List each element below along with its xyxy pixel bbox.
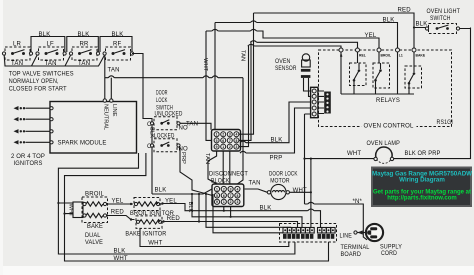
svg-text:YEL: YEL bbox=[365, 33, 377, 39]
wire BLK loop RR-RF bbox=[100, 37, 132, 53]
svg-text:SPARK MODULE: SPARK MODULE bbox=[58, 141, 107, 147]
wire TAN drop into block row3 bbox=[239, 46, 249, 147]
wire YEL broil ignitor return bbox=[163, 204, 321, 228]
wire stair 4 bbox=[206, 194, 291, 227]
svg-text:1: 1 bbox=[223, 200, 225, 204]
svg-text:3: 3 bbox=[229, 133, 231, 137]
svg-text:BAKE IGNITOR: BAKE IGNITOR bbox=[125, 231, 166, 237]
svg-text:7: 7 bbox=[230, 194, 232, 198]
svg-text:BLK: BLK bbox=[155, 188, 167, 194]
svg-text:BLK OR PRP: BLK OR PRP bbox=[405, 151, 441, 157]
svg-text:RED: RED bbox=[111, 210, 125, 216]
svg-text:TOP VALVE SWITCHES: TOP VALVE SWITCHES bbox=[9, 72, 74, 78]
wire B drop bbox=[340, 52, 342, 94]
connector plug white strip bbox=[311, 87, 318, 117]
svg-text:L1: L1 bbox=[399, 54, 403, 58]
svg-text:RED: RED bbox=[167, 216, 181, 222]
svg-text:NEUTRAL: NEUTRAL bbox=[102, 104, 108, 130]
oven light switch bbox=[425, 24, 459, 34]
svg-text:4: 4 bbox=[236, 187, 238, 191]
oven sensor symbol bbox=[301, 54, 311, 78]
wire PRP from block to oven control connector bbox=[240, 108, 311, 153]
svg-text:RF: RF bbox=[113, 41, 122, 47]
svg-text:2: 2 bbox=[223, 187, 225, 191]
terminal board dashed box bbox=[280, 224, 337, 243]
svg-text:DOOR LOCK: DOOR LOCK bbox=[269, 171, 298, 177]
svg-text:BLK: BLK bbox=[383, 17, 395, 23]
svg-text:SWITCH: SWITCH bbox=[430, 16, 451, 22]
svg-text:LF: LF bbox=[47, 41, 55, 47]
connector pin lines bbox=[318, 91, 324, 114]
svg-text:MOTOR: MOTOR bbox=[270, 178, 290, 184]
left white margin bbox=[0, 0, 3, 275]
svg-text:LR: LR bbox=[13, 41, 22, 47]
svg-text:DISCONNECT: DISCONNECT bbox=[209, 172, 248, 178]
valve inlet body bbox=[73, 202, 83, 218]
svg-text:IGNITORS: IGNITORS bbox=[14, 161, 43, 167]
spark module ignitor terminals and wires bbox=[26, 107, 54, 144]
wire BLK loop LR-LF bbox=[31, 37, 65, 53]
wire BLK top bbox=[215, 21, 398, 50]
upper connector block bbox=[212, 130, 241, 152]
wire WHT to lamp bbox=[305, 158, 374, 160]
connector dark strip bbox=[324, 92, 331, 114]
wire relay bottom bus bbox=[341, 93, 414, 95]
label OVEN CONTROL on bottom edge bbox=[362, 121, 417, 129]
svg-text:BAKE: BAKE bbox=[87, 224, 103, 230]
svg-text:BLK: BLK bbox=[112, 32, 124, 38]
relay 3 bbox=[405, 52, 422, 94]
svg-text:DUAL: DUAL bbox=[85, 233, 101, 239]
wire WHT vertical from top into block bbox=[206, 31, 212, 140]
svg-text:TAN: TAN bbox=[249, 180, 261, 186]
bottom white margin bbox=[0, 266, 474, 275]
terminals on top edge bbox=[339, 48, 416, 52]
wires sensor to connector bbox=[304, 78, 311, 96]
svg-text:3: 3 bbox=[230, 187, 232, 191]
svg-text:3: 3 bbox=[236, 200, 238, 204]
dual valve box bbox=[82, 197, 108, 223]
wire RF line to spark module LINE pin bbox=[110, 78, 112, 100]
svg-text:WHT: WHT bbox=[202, 58, 208, 72]
svg-text:CORD: CORD bbox=[381, 251, 397, 257]
svg-text:OVEN LAMP: OVEN LAMP bbox=[367, 141, 401, 147]
switch RR box bbox=[69, 41, 99, 67]
wire light switch feed bbox=[414, 28, 471, 29]
svg-text:LINE: LINE bbox=[111, 104, 117, 117]
svg-text:BLK: BLK bbox=[271, 138, 283, 144]
wire TAN to B terminal bbox=[248, 44, 341, 50]
svg-text:RED: RED bbox=[398, 8, 412, 14]
svg-text:RS1GI: RS1GI bbox=[437, 120, 454, 126]
svg-text:BLK: BLK bbox=[187, 202, 193, 213]
door lock motor bbox=[267, 184, 289, 199]
wire TAN drop to spark module bbox=[104, 56, 106, 100]
wire L1 drop bbox=[397, 52, 399, 94]
wire interblock TAN jog bbox=[208, 151, 217, 184]
svg-text:WHT: WHT bbox=[347, 151, 361, 157]
svg-text:8: 8 bbox=[236, 194, 238, 198]
svg-text:VALVE: VALVE bbox=[85, 240, 103, 246]
door lock switch UNLOCKED bbox=[147, 112, 188, 132]
svg-text:OVEN: OVEN bbox=[275, 59, 291, 65]
wire BLK OR PRP lamp to right edge bbox=[394, 28, 471, 159]
svg-text:PRP: PRP bbox=[270, 156, 283, 162]
wire drop into block row2 bbox=[239, 42, 251, 140]
wire valve stubs to left verticals bbox=[58, 203, 73, 214]
wire BLK vertical from top into block col1 bbox=[214, 23, 216, 130]
wire RED top bbox=[254, 13, 415, 50]
wire TAN block to door lock motor bbox=[245, 189, 268, 192]
svg-text:BLK: BLK bbox=[260, 206, 272, 212]
wire WHT ignitor return to terminal board bbox=[140, 229, 289, 247]
svg-text:OVEN LIGHT: OVEN LIGHT bbox=[427, 9, 461, 15]
wire lamp WHT up to connector bbox=[305, 114, 311, 204]
bake ignitor box bbox=[136, 216, 162, 229]
wire RED valve to bake ignitor bbox=[107, 216, 135, 220]
wire interblock col2 col3 bbox=[223, 151, 230, 184]
svg-text:BLK: BLK bbox=[114, 249, 126, 255]
wire TAN branch to right (to TAN vertical) bbox=[105, 76, 243, 78]
svg-text:2: 2 bbox=[222, 133, 224, 137]
wire RED bake ignitor return bbox=[164, 194, 298, 228]
wire to REL terminal bbox=[250, 41, 357, 50]
relay 1 bbox=[350, 52, 367, 94]
switch LF box bbox=[36, 41, 66, 67]
svg-text:WHT: WHT bbox=[68, 204, 74, 218]
svg-text:CLOSED FOR START: CLOSED FOR START bbox=[9, 87, 67, 93]
oven lamp bbox=[374, 147, 394, 163]
switch LR box bbox=[2, 41, 32, 67]
svg-text:7: 7 bbox=[229, 139, 231, 143]
svg-text:http://parts.fixitnow.com: http://parts.fixitnow.com bbox=[387, 195, 456, 201]
svg-text:BLK: BLK bbox=[148, 127, 154, 138]
svg-text:6: 6 bbox=[223, 194, 225, 198]
wire RED drop into block row1 bbox=[239, 13, 254, 134]
svg-text:BLK: BLK bbox=[78, 32, 90, 38]
wire BLK from RF switch to door lock C terminals bbox=[132, 54, 152, 195]
terminal strip 1 bbox=[283, 228, 314, 239]
wire block col2 drop bbox=[223, 207, 225, 211]
svg-text:WHT: WHT bbox=[148, 241, 162, 247]
svg-text:TAN: TAN bbox=[186, 121, 198, 127]
svg-text:2: 2 bbox=[230, 200, 232, 204]
door lock switch LOCKED bbox=[147, 133, 188, 152]
svg-text:YEL: YEL bbox=[112, 198, 124, 204]
wire YEL broil ignitor right bbox=[160, 203, 163, 205]
svg-text:LOCK: LOCK bbox=[156, 98, 168, 104]
broil ignitor box bbox=[134, 198, 160, 211]
wire motor to WHT vertical bbox=[290, 191, 311, 193]
wire module neutral to BLK bottom bus bbox=[58, 153, 295, 254]
svg-text:REL: REL bbox=[359, 54, 366, 58]
svg-text:PRP: PRP bbox=[180, 152, 186, 164]
oven control dashed box bbox=[319, 50, 452, 127]
svg-text:DOOR: DOOR bbox=[156, 90, 168, 96]
svg-text:NORMALLY OPEN,: NORMALLY OPEN, bbox=[9, 79, 59, 85]
svg-text:1: 1 bbox=[222, 145, 224, 149]
svg-text:SWITCH: SWITCH bbox=[156, 105, 173, 111]
svg-text:TAN: TAN bbox=[108, 68, 120, 74]
svg-text:RELAYS: RELAYS bbox=[376, 98, 400, 104]
wire WHT/YEL mid bbox=[206, 29, 379, 50]
svg-text:TERMINAL: TERMINAL bbox=[341, 245, 370, 251]
wire BLK bundle into block left bbox=[152, 189, 212, 194]
svg-text:1: 1 bbox=[216, 133, 218, 137]
svg-text:9: 9 bbox=[216, 145, 218, 149]
svg-text:9: 9 bbox=[216, 200, 218, 204]
svg-text:5: 5 bbox=[216, 139, 218, 143]
ignitor spark symbols bbox=[14, 106, 26, 145]
wire block col3 drop and run bbox=[192, 194, 302, 228]
svg-text:BLK: BLK bbox=[416, 22, 428, 28]
svg-text:*N*: *N* bbox=[353, 199, 363, 205]
svg-text:Wiring Diagram: Wiring Diagram bbox=[399, 177, 445, 184]
wire BLK loop LF-RR bbox=[67, 37, 99, 53]
svg-text:OVEN CONTROL: OVEN CONTROL bbox=[364, 123, 414, 129]
spark module box bbox=[50, 99, 137, 153]
svg-text:5: 5 bbox=[216, 194, 218, 198]
wire YEL valve to broil ignitor bbox=[107, 203, 133, 205]
svg-text:BAKE: BAKE bbox=[416, 54, 426, 58]
svg-text:BOARD: BOARD bbox=[341, 252, 362, 258]
svg-text:1: 1 bbox=[216, 187, 218, 191]
svg-text:SENSOR: SENSOR bbox=[275, 66, 297, 72]
wire BLK from block to oven control connector bbox=[240, 102, 311, 143]
svg-text:YEL: YEL bbox=[165, 199, 177, 205]
wire stair 5 BLK main bbox=[213, 194, 283, 233]
svg-text:BLK: BLK bbox=[39, 32, 51, 38]
wire unlocked NO to disconnect area bbox=[180, 123, 211, 130]
wire PRP locked NO down to block bbox=[180, 147, 212, 195]
terminal strip 2 bbox=[318, 228, 336, 239]
svg-text:TAN: TAN bbox=[239, 50, 245, 61]
svg-text:4: 4 bbox=[235, 133, 237, 137]
wire module line to WHT bottom bus bbox=[65, 153, 329, 261]
wire TAN bus under switches bbox=[4, 55, 104, 66]
svg-text:SUPPLY: SUPPLY bbox=[380, 245, 402, 251]
svg-text:RR: RR bbox=[80, 41, 90, 47]
switch RF box bbox=[103, 41, 134, 60]
svg-text:C: C bbox=[147, 144, 152, 150]
disconnect block bbox=[212, 184, 244, 207]
svg-text:TAN: TAN bbox=[204, 153, 210, 164]
svg-text:2: 2 bbox=[229, 145, 231, 149]
svg-text:WHT: WHT bbox=[114, 256, 128, 262]
svg-text:2 OR 4 TOP: 2 OR 4 TOP bbox=[11, 154, 45, 160]
svg-text:LINE: LINE bbox=[340, 233, 353, 239]
svg-text:BROIL: BROIL bbox=[381, 54, 392, 58]
wire TAN vertical to lower block bbox=[237, 78, 243, 184]
relay 2 bbox=[373, 52, 390, 94]
supply cord plug bbox=[366, 224, 383, 241]
wire WHT vertical lamp to terminal board bbox=[310, 159, 312, 228]
wire RED bake ignitor right bbox=[162, 221, 164, 223]
svg-text:3: 3 bbox=[235, 145, 237, 149]
svg-text:6: 6 bbox=[222, 139, 224, 143]
svg-text:8: 8 bbox=[235, 139, 237, 143]
